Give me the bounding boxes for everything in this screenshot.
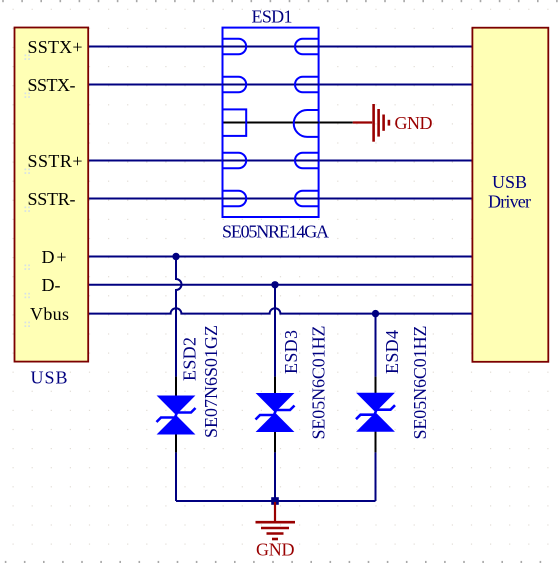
svg-text:ESD3: ESD3 — [281, 330, 301, 374]
svg-text:Vbus: Vbus — [30, 304, 69, 324]
svg-text:SSTX+: SSTX+ — [28, 37, 83, 57]
svg-text:SE05N6C01HZ: SE05N6C01HZ — [308, 326, 328, 440]
svg-text:SSTR+: SSTR+ — [28, 151, 83, 171]
svg-text:USB: USB — [492, 172, 527, 192]
svg-text:GND: GND — [256, 540, 295, 560]
svg-text:USB: USB — [31, 368, 68, 388]
svg-text:ESD1: ESD1 — [252, 7, 293, 27]
svg-text:ESD2: ESD2 — [180, 337, 200, 381]
svg-text:D-: D- — [42, 275, 61, 295]
svg-text:SE05NRE14GA: SE05NRE14GA — [222, 222, 329, 242]
svg-text:SSTR-: SSTR- — [28, 189, 76, 209]
svg-text:Driver: Driver — [488, 192, 531, 212]
svg-text:D+: D+ — [42, 247, 67, 267]
svg-text:SE05N6C01HZ: SE05N6C01HZ — [410, 326, 430, 440]
svg-text:SE07N6S01GZ: SE07N6S01GZ — [201, 325, 221, 438]
svg-text:GND: GND — [395, 113, 433, 133]
svg-text:SSTX-: SSTX- — [28, 75, 76, 95]
svg-text:ESD4: ESD4 — [382, 330, 402, 374]
